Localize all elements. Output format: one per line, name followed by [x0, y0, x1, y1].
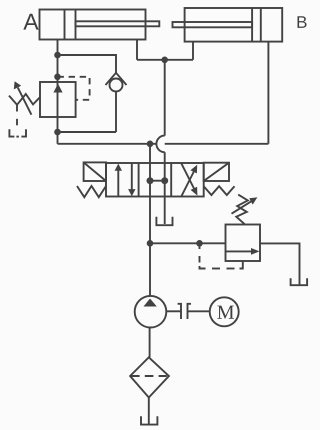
valve left box up arrow [115, 164, 122, 197]
valve right box cross arrows [181, 163, 197, 196]
tank T2 [156, 217, 172, 225]
valve left box down arrow [128, 163, 135, 196]
wire rod-end horizontal [137, 59, 193, 61]
drain tank T1 [9, 129, 26, 136]
valve DCV body [106, 163, 204, 197]
pilot dashed line V2 [200, 243, 243, 268]
relief valve V2 spring [236, 195, 248, 225]
coupling [178, 304, 191, 319]
wire valve P down to pump [149, 197, 151, 296]
motor M1 [210, 297, 239, 326]
spring right of valve [204, 186, 235, 195]
relief valve V2 arrow [226, 248, 260, 255]
wire check bottom horizontal [58, 131, 117, 133]
label M [217, 306, 234, 319]
wire filter to tank [148, 398, 150, 425]
valve middle box lines [150, 163, 165, 197]
tank T4 [141, 416, 157, 424]
relief valve V1 arrow [53, 84, 62, 93]
wire valve T to tank [164, 197, 166, 225]
shaft coupling to motor [188, 310, 210, 312]
shaft pump to coupling [166, 310, 181, 312]
cylinder A [40, 10, 160, 40]
node P branch [147, 240, 154, 247]
wire B rod-end down [192, 42, 194, 60]
wire P branch to relief V2 [150, 242, 226, 244]
cylinder B [173, 8, 283, 42]
wire rod junction to valve with hop [156, 60, 164, 163]
node pilot branch [196, 240, 203, 247]
node rod junction [161, 57, 168, 64]
wire check valve bottom [115, 92, 117, 133]
node P work junction [147, 141, 154, 148]
drain line V1 [16, 105, 18, 126]
wire B cap-end down [267, 42, 269, 144]
check valve CV1 [106, 73, 127, 92]
label A [23, 14, 38, 30]
solenoid left [84, 162, 106, 181]
node A2 [54, 74, 61, 81]
solenoid right [204, 163, 229, 181]
wire to check valve top [58, 55, 117, 73]
wire junction to valve A port [149, 144, 151, 163]
label B [297, 16, 306, 28]
wire A rod-end down [136, 40, 138, 60]
pump P1 [135, 296, 167, 328]
node valve dot left [147, 177, 154, 184]
relief valve V2 box [226, 225, 261, 262]
wire main horizontal left [58, 143, 157, 145]
node A3 [54, 129, 61, 136]
node valve dot right [161, 177, 168, 184]
pilot dashed line V1 [58, 77, 90, 100]
relief valve V1 adjust arrow [14, 81, 32, 115]
relief valve V1 box [40, 82, 76, 117]
filter F1 [130, 357, 169, 397]
relief valve V2 adjust arrow [232, 197, 258, 213]
wire main horizontal right [165, 143, 269, 145]
node A1 [54, 52, 61, 59]
relief valve V1 spring [9, 94, 40, 105]
wire V2 outlet [260, 243, 300, 285]
wire pump to filter [149, 328, 151, 358]
spring left of valve [77, 186, 106, 197]
tank T3 [291, 278, 308, 285]
wire A cap-end down [57, 40, 59, 144]
